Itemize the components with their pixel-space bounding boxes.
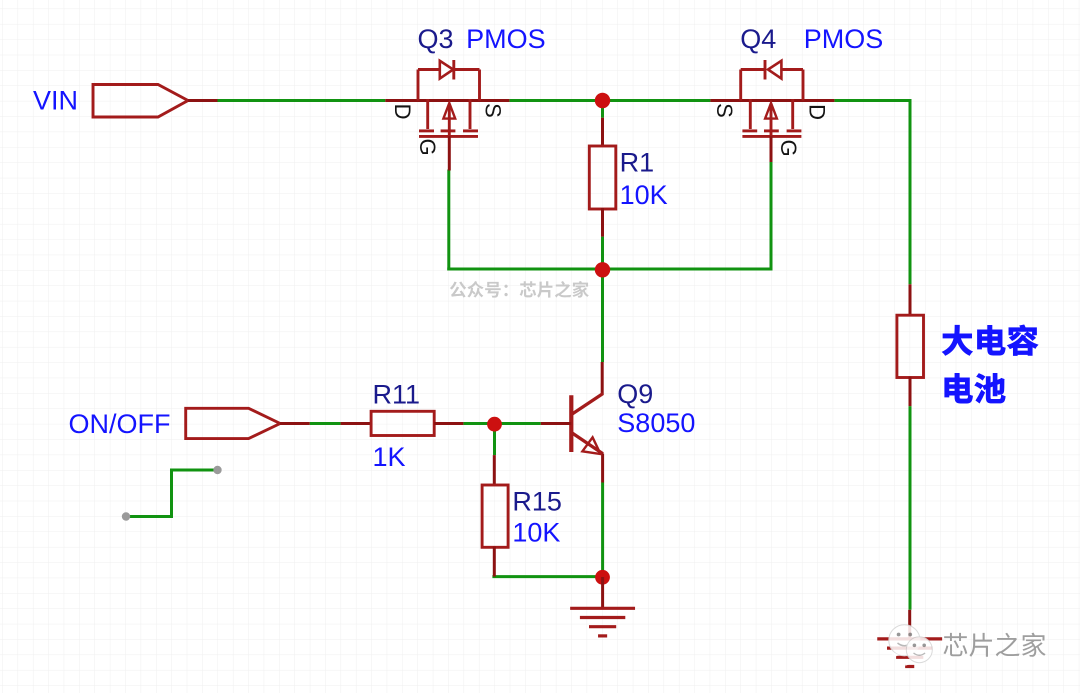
svg-text:D: D (390, 104, 415, 120)
wire VIN port pin (188, 99, 218, 102)
Q3 bulk arrowhead (443, 103, 455, 119)
wire base node down to R15 (493, 425, 496, 455)
wire ON/OFF port to R11 (310, 422, 341, 425)
wire gate bus node down to Q9 collector (601, 269, 604, 362)
transistor Q9 NPN (541, 362, 603, 483)
port ON/OFF (186, 408, 280, 438)
svg-text:10K: 10K (512, 517, 560, 547)
logo chat bubbles (889, 625, 932, 666)
logo text 芯片之家 (945, 635, 1047, 659)
wire gate bus horizontal (447, 268, 772, 271)
svg-text:R15: R15 (512, 487, 562, 517)
watermark 公众号：芯片之家 (450, 281, 589, 298)
resistor battery/large-capacitor symbol (897, 284, 924, 406)
wire Q3 gate lead (448, 136, 451, 170)
wire net between Q3 source and Q4 source (509, 99, 710, 102)
svg-text:R11: R11 (373, 379, 421, 409)
port VIN (93, 85, 188, 118)
label 电池 (945, 373, 1005, 403)
wire right column down to battery resistor (909, 99, 912, 284)
node floating stub endpoint right (213, 466, 221, 474)
svg-text:S8050: S8050 (617, 408, 695, 438)
svg-text:PMOS: PMOS (804, 24, 884, 54)
label 大电容 (942, 325, 1037, 355)
ground bottom right (battery return) (877, 610, 942, 667)
svg-text:R1: R1 (620, 148, 655, 178)
Q9 emitter arrowhead (582, 437, 600, 454)
wire Q4 drain to right column top (834, 99, 911, 102)
resistor R1 (589, 118, 616, 237)
Q4 bulk arrowhead (765, 103, 777, 119)
resistor R15 (482, 455, 508, 576)
svg-text:Q9: Q9 (617, 379, 653, 409)
wire VIN net: port to Q3 drain (218, 99, 386, 102)
wire R15 bottom to ground node (492, 575, 602, 578)
wire R1 bottom to gate bus (601, 237, 604, 271)
wire base node to Q9 base (495, 422, 541, 425)
wire Q3 gate down (447, 170, 450, 271)
transistor Q4 PMOS body (710, 70, 834, 137)
svg-text:G: G (415, 138, 440, 155)
wire floating stub with endpoints (126, 470, 218, 517)
transistor Q3 PMOS body (385, 70, 509, 137)
svg-text:Q4: Q4 (740, 24, 776, 54)
svg-text:1K: 1K (373, 442, 406, 472)
resistor R11 (341, 411, 464, 435)
wire R11 to base node (463, 422, 496, 425)
svg-text:Q3: Q3 (418, 24, 454, 54)
wire Q4 gate down (770, 161, 773, 271)
wire top node down to R1 (601, 103, 604, 118)
diode Q3 body diode (440, 60, 454, 80)
svg-text:10K: 10K (620, 180, 668, 210)
diode Q4 body diode (765, 60, 781, 80)
wire Q4 gate lead (770, 136, 773, 162)
wire Q9 emitter down to ground node (601, 483, 604, 579)
ground below Q9 emitter (570, 577, 635, 636)
svg-text:G: G (776, 139, 801, 156)
node emitter ground junction (595, 570, 610, 585)
node floating stub endpoint left (122, 512, 130, 520)
svg-text:PMOS: PMOS (466, 24, 546, 54)
svg-text:ON/OFF: ON/OFF (69, 409, 171, 439)
svg-text:S: S (481, 103, 506, 118)
node base junction (487, 417, 502, 432)
node top rail junction (595, 93, 610, 108)
node gate bus junction (595, 262, 610, 277)
svg-text:VIN: VIN (33, 86, 78, 116)
svg-text:S: S (712, 103, 737, 118)
wire battery resistor to bottom ground (909, 406, 912, 610)
wire ON/OFF port pin (280, 422, 310, 425)
svg-text:D: D (804, 104, 829, 120)
